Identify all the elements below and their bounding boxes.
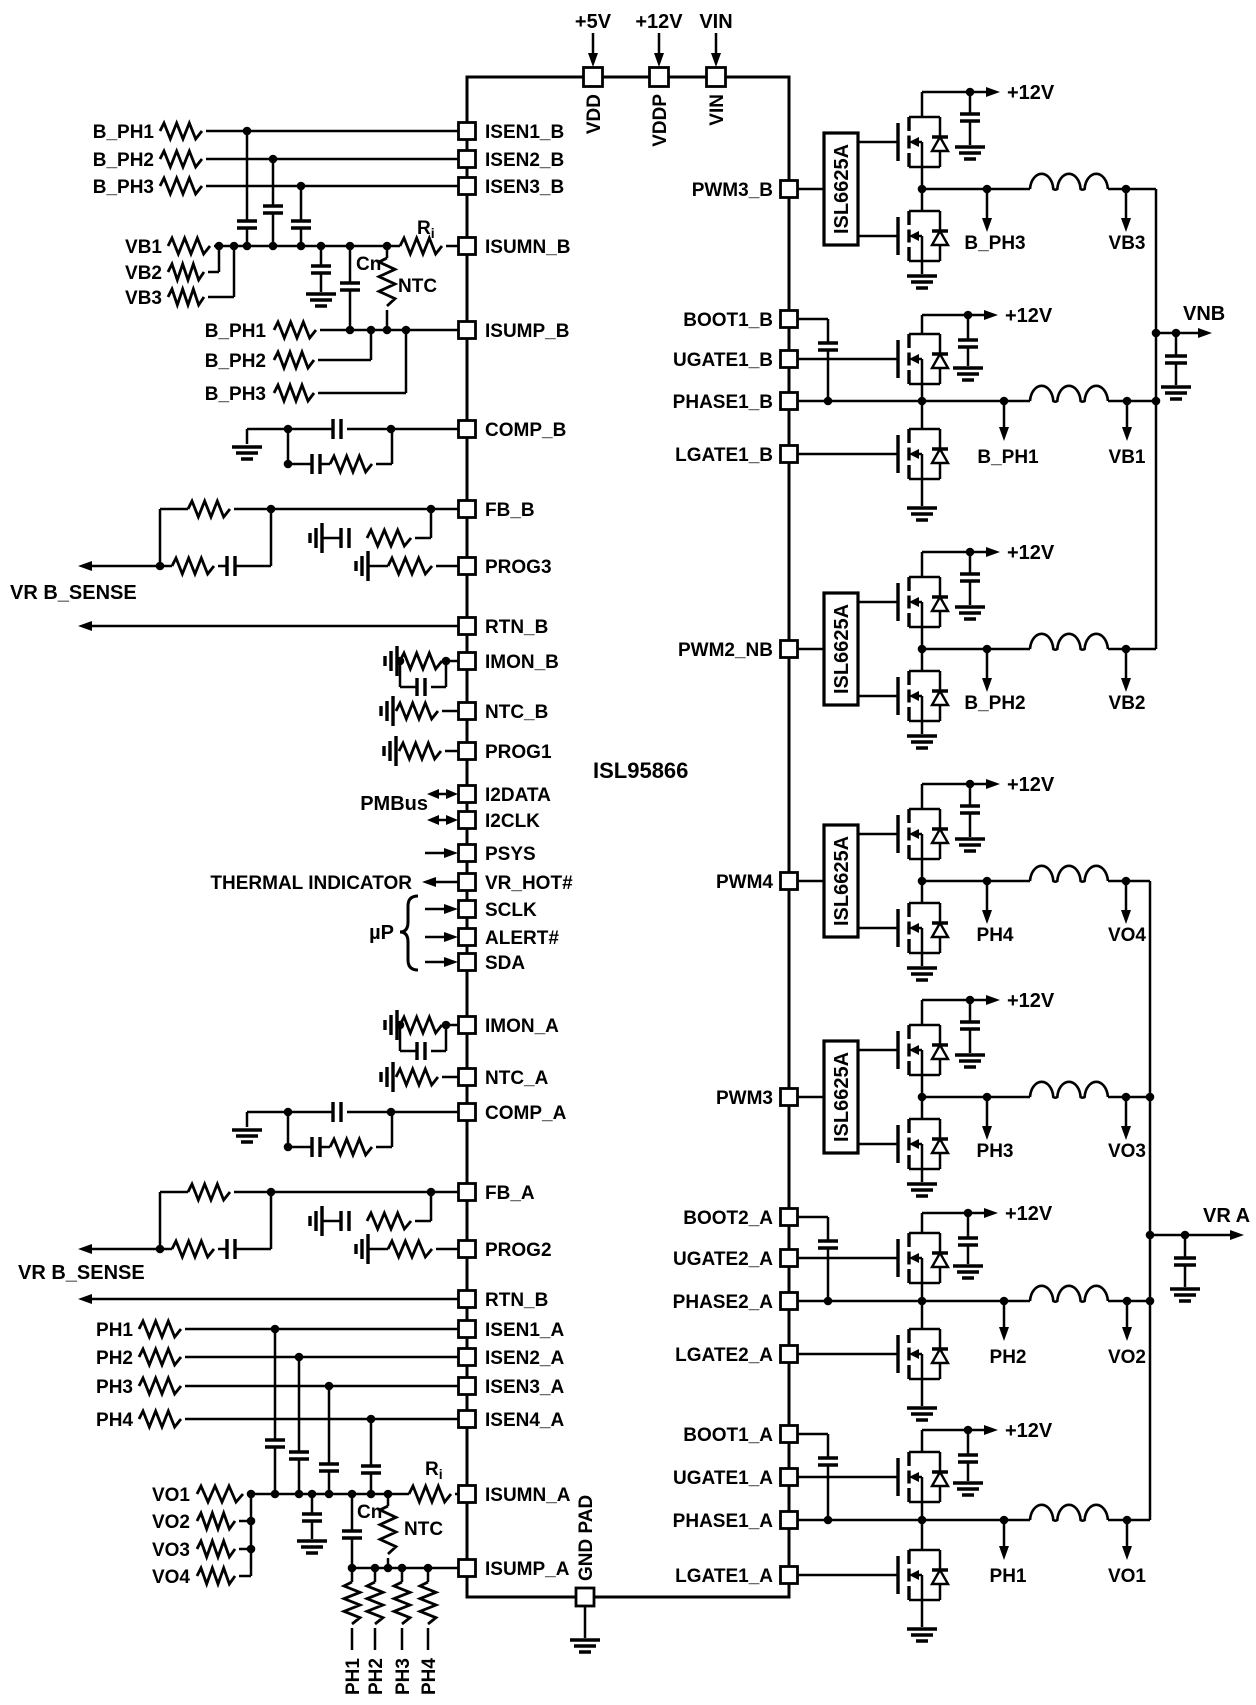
svg-text:IMON_A: IMON_A xyxy=(485,1016,559,1037)
svg-text:NTC: NTC xyxy=(404,1519,443,1540)
svg-text:+12V: +12V xyxy=(1007,990,1055,1012)
svg-text:THERMAL INDICATOR: THERMAL INDICATOR xyxy=(210,873,412,894)
svg-text:+12V: +12V xyxy=(1007,774,1055,796)
svg-text:VB1: VB1 xyxy=(125,237,162,258)
svg-text:PWM2_NB: PWM2_NB xyxy=(678,640,773,661)
svg-text:+12V: +12V xyxy=(1007,82,1055,104)
svg-text:PH1: PH1 xyxy=(343,1658,364,1695)
svg-text:VB1: VB1 xyxy=(1109,447,1146,468)
svg-text:LGATE1_B: LGATE1_B xyxy=(675,445,773,466)
svg-text:VB3: VB3 xyxy=(125,288,162,309)
svg-text:PH4: PH4 xyxy=(96,1410,133,1431)
svg-text:VNB: VNB xyxy=(1183,303,1225,325)
svg-text:B_PH2: B_PH2 xyxy=(964,693,1025,714)
svg-text:I2CLK: I2CLK xyxy=(485,811,540,832)
svg-text:NTC_A: NTC_A xyxy=(485,1068,549,1089)
svg-text:ISUMP_B: ISUMP_B xyxy=(485,321,569,342)
svg-text:PWM3_B: PWM3_B xyxy=(692,180,773,201)
svg-text:VR_HOT#: VR_HOT# xyxy=(485,873,573,894)
svg-text:LGATE2_A: LGATE2_A xyxy=(675,1345,773,1366)
svg-text:RTN_B: RTN_B xyxy=(485,617,548,638)
svg-text:+12V: +12V xyxy=(1007,542,1055,564)
svg-text:ISEN2_B: ISEN2_B xyxy=(485,150,564,171)
svg-text:ISEN1_A: ISEN1_A xyxy=(485,1320,564,1341)
svg-text:ALERT#: ALERT# xyxy=(485,928,559,949)
svg-text:PH3: PH3 xyxy=(96,1377,133,1398)
svg-text:I2DATA: I2DATA xyxy=(485,785,551,806)
svg-text:RTN_B: RTN_B xyxy=(485,1290,548,1311)
svg-text:PWM4: PWM4 xyxy=(716,872,773,893)
svg-text:VO1: VO1 xyxy=(1108,1566,1146,1587)
svg-text:VDDP: VDDP xyxy=(650,94,671,147)
svg-text:+12V: +12V xyxy=(1005,305,1053,327)
svg-text:VO2: VO2 xyxy=(1108,1347,1146,1368)
svg-text:PH4: PH4 xyxy=(419,1658,440,1695)
svg-text:VO3: VO3 xyxy=(152,1540,190,1561)
svg-text:VR B_SENSE: VR B_SENSE xyxy=(18,1262,145,1284)
svg-text:SDA: SDA xyxy=(485,953,525,974)
svg-text:ISEN3_B: ISEN3_B xyxy=(485,177,564,198)
svg-text:GND PAD: GND PAD xyxy=(576,1495,597,1581)
svg-text:Cn: Cn xyxy=(357,1502,382,1523)
svg-text:B_PH1: B_PH1 xyxy=(93,122,155,143)
svg-text:PWM3: PWM3 xyxy=(716,1088,773,1109)
svg-text:VR B_SENSE: VR B_SENSE xyxy=(10,582,137,604)
svg-text:PH1: PH1 xyxy=(96,1320,133,1341)
svg-text:COMP_A: COMP_A xyxy=(485,1103,567,1124)
svg-text:FB_A: FB_A xyxy=(485,1183,535,1204)
svg-text:PROG3: PROG3 xyxy=(485,557,552,578)
svg-text:PH3: PH3 xyxy=(977,1141,1014,1162)
svg-text:VO4: VO4 xyxy=(152,1567,190,1588)
svg-text:B_PH3: B_PH3 xyxy=(93,177,154,198)
svg-text:NTC_B: NTC_B xyxy=(485,702,548,723)
svg-text:ISUMN_A: ISUMN_A xyxy=(485,1485,571,1506)
svg-text:PH2: PH2 xyxy=(366,1658,387,1695)
svg-text:B_PH2: B_PH2 xyxy=(205,351,266,372)
svg-text:VO1: VO1 xyxy=(152,1485,190,1506)
svg-text:PHASE2_A: PHASE2_A xyxy=(673,1292,774,1313)
svg-text:PH1: PH1 xyxy=(990,1566,1027,1587)
svg-text:BOOT2_A: BOOT2_A xyxy=(683,1208,773,1229)
svg-text:ISEN3_A: ISEN3_A xyxy=(485,1377,564,1398)
svg-text:PH4: PH4 xyxy=(977,925,1014,946)
svg-text:ISL95866: ISL95866 xyxy=(593,758,688,783)
svg-text:B_PH1: B_PH1 xyxy=(977,447,1039,468)
svg-text:VB3: VB3 xyxy=(1109,233,1146,254)
svg-text:ISL6625A: ISL6625A xyxy=(831,836,853,926)
svg-text:PROG2: PROG2 xyxy=(485,1240,552,1261)
svg-text:ISL6625A: ISL6625A xyxy=(831,144,853,234)
svg-text:PH2: PH2 xyxy=(96,1348,133,1369)
svg-text:+12V: +12V xyxy=(635,11,683,33)
svg-text:+12V: +12V xyxy=(1005,1203,1053,1225)
svg-text:IMON_B: IMON_B xyxy=(485,652,559,673)
svg-text:VB2: VB2 xyxy=(125,263,162,284)
svg-text:VB2: VB2 xyxy=(1109,693,1146,714)
svg-text:VR A: VR A xyxy=(1203,1205,1250,1227)
svg-text:VIN: VIN xyxy=(699,11,732,33)
svg-text:VO3: VO3 xyxy=(1108,1141,1146,1162)
svg-text:ISEN2_A: ISEN2_A xyxy=(485,1348,564,1369)
svg-text:+5V: +5V xyxy=(575,11,612,33)
svg-text:PROG1: PROG1 xyxy=(485,742,552,763)
svg-text:UGATE1_A: UGATE1_A xyxy=(673,1468,773,1489)
svg-text:UGATE1_B: UGATE1_B xyxy=(673,350,773,371)
svg-text:PSYS: PSYS xyxy=(485,844,536,865)
svg-text:µP: µP xyxy=(369,922,394,944)
svg-text:ISUMN_B: ISUMN_B xyxy=(485,237,571,258)
svg-text:B_PH3: B_PH3 xyxy=(205,384,266,405)
svg-text:NTC: NTC xyxy=(398,276,437,297)
svg-text:FB_B: FB_B xyxy=(485,500,535,521)
svg-text:Cn: Cn xyxy=(356,254,381,275)
svg-text:SCLK: SCLK xyxy=(485,900,537,921)
svg-text:PHASE1_B: PHASE1_B xyxy=(673,392,773,413)
svg-text:VIN: VIN xyxy=(707,94,728,126)
svg-text:ISEN4_A: ISEN4_A xyxy=(485,1410,564,1431)
svg-text:PH2: PH2 xyxy=(990,1347,1027,1368)
svg-text:BOOT1_B: BOOT1_B xyxy=(683,310,773,331)
svg-text:VDD: VDD xyxy=(584,94,605,134)
svg-text:PHASE1_A: PHASE1_A xyxy=(673,1511,774,1532)
svg-text:ISEN1_B: ISEN1_B xyxy=(485,122,564,143)
svg-text:PH3: PH3 xyxy=(393,1658,414,1695)
svg-text:B_PH1: B_PH1 xyxy=(205,321,267,342)
svg-text:BOOT1_A: BOOT1_A xyxy=(683,1425,773,1446)
svg-text:+12V: +12V xyxy=(1005,1420,1053,1442)
svg-text:PMBus: PMBus xyxy=(360,793,428,815)
svg-text:B_PH2: B_PH2 xyxy=(93,150,154,171)
svg-text:LGATE1_A: LGATE1_A xyxy=(675,1566,773,1587)
svg-text:VO4: VO4 xyxy=(1108,925,1146,946)
svg-text:VO2: VO2 xyxy=(152,1512,190,1533)
svg-text:ISL6625A: ISL6625A xyxy=(831,1052,853,1142)
svg-text:B_PH3: B_PH3 xyxy=(964,233,1025,254)
svg-text:ISUMP_A: ISUMP_A xyxy=(485,1559,570,1580)
svg-text:COMP_B: COMP_B xyxy=(485,420,566,441)
svg-text:ISL6625A: ISL6625A xyxy=(831,604,853,694)
svg-text:UGATE2_A: UGATE2_A xyxy=(673,1249,773,1270)
